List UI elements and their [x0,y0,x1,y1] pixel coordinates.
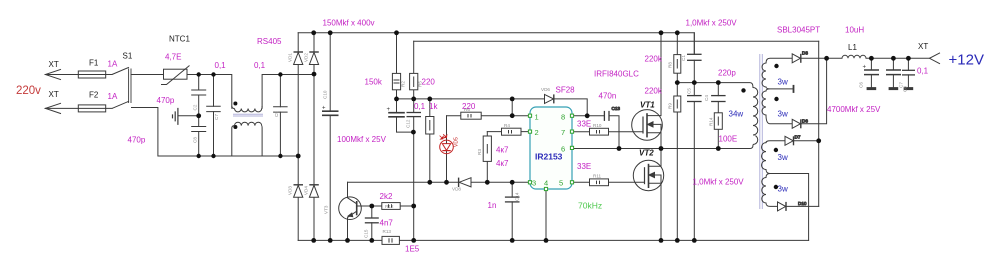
svg-text:R10: R10 [593,123,602,128]
wire VCC node line [397,98,545,100]
bridge diode VD1 [288,52,304,65]
wire VT3 emitter [347,218,349,241]
diode VD8 [452,178,471,192]
svg-text:VD8: VD8 [452,187,461,192]
transformer T1 primary winding [753,88,758,145]
capacitor C7out 4700Mkf [886,70,904,89]
svg-text:10uH: 10uH [845,26,864,35]
svg-text:VD5: VD5 [454,137,460,147]
wire divider midpoint to primary [677,83,753,88]
choke lower winding [235,122,262,125]
svg-text:VT3: VT3 [324,205,329,214]
svg-text:470p: 470p [157,96,175,105]
svg-text:220v: 220v [16,85,41,97]
svg-text:C14: C14 [515,192,520,201]
svg-text:D10: D10 [798,201,807,206]
wire top rail +310V [298,33,694,53]
svg-text:100E: 100E [719,135,738,144]
resistor R13 1E5 [382,229,399,244]
svg-text:C6: C6 [859,82,864,88]
svg-text:220k: 220k [645,55,663,64]
wire 0.1 VCC cap column [413,99,415,241]
wire C14 column [511,182,513,240]
choke winding end links [232,106,262,156]
ground symbol [173,108,178,125]
svg-text:8: 8 [561,112,565,121]
svg-text:C9: C9 [274,111,279,117]
wire W2 bottom lead to D6 [766,115,792,124]
svg-text:0,1: 0,1 [254,61,266,70]
bridge diode VD2 [303,52,319,65]
wire SF28 to pin8 [554,99,587,116]
wire VT3 collector [347,182,349,197]
svg-text:+: + [387,107,391,113]
svg-text:3w: 3w [778,110,788,119]
wire VT2 drain source column [660,149,662,241]
resistor R3 4k7 [477,136,491,161]
transistor VT3 [324,197,362,220]
wire D10 cathode to aux column [785,205,819,207]
wire 220 startup column [413,41,415,99]
transformer secondary W2 [762,91,766,115]
svg-text:R8: R8 [668,62,673,68]
svg-text:C12: C12 [406,119,411,128]
wire output +12V line [827,57,930,59]
svg-text:XT: XT [49,60,59,69]
svg-text:220p: 220p [718,69,736,78]
capacitor C5 1.0Mkf [687,88,702,102]
resistor R9 220k [668,96,681,112]
svg-text:C2: C2 [193,104,198,110]
resistor R5 220 [410,73,423,89]
svg-text:XT: XT [49,90,59,99]
resistor R8 220k [668,55,681,74]
wire bottom rail [298,239,808,241]
svg-text:4700Mkf x 25V: 4700Mkf x 25V [827,105,881,114]
diode SF28 VD6 [541,87,554,103]
svg-text:+: + [863,65,867,71]
capacitor C7 0.1 [206,106,221,120]
capacitor C11 0.1 [407,113,422,117]
svg-text:C7: C7 [214,114,219,120]
svg-text:1: 1 [535,112,539,121]
svg-text:VD6: VD6 [541,87,550,92]
svg-text:220: 220 [462,102,476,111]
svg-text:VD2: VD2 [303,53,308,62]
svg-text:D3: D3 [802,51,808,56]
svg-text:R3: R3 [477,149,482,155]
wire pin6 VS midpoint line [572,148,745,150]
svg-text:2: 2 [535,128,539,137]
transistor VT1 mosfet [632,110,663,141]
capacitor C9 0.1 [273,107,288,117]
input arrow XT top [45,69,61,79]
bridge diode VD3 [288,185,304,198]
svg-text:150Mkf x 400v: 150Mkf x 400v [323,19,375,28]
svg-text:VT2: VT2 [639,149,654,158]
svg-text:R13: R13 [383,229,392,234]
svg-text:C8: C8 [903,86,908,92]
svg-text:3w: 3w [778,78,788,87]
svg-text:4: 4 [544,179,548,188]
svg-text:4к7: 4к7 [496,146,509,155]
LED VD5 [440,134,460,153]
svg-text:C1: C1 [681,55,686,61]
wire 150k column [396,33,398,99]
svg-text:R9: R9 [668,103,673,109]
capacitor C12 100Mkf [387,107,411,128]
svg-text:0,1: 0,1 [215,61,227,70]
svg-text:C5: C5 [687,88,692,94]
svg-text:0,1: 0,1 [414,102,426,111]
svg-text:3w: 3w [778,185,788,194]
wire X-cap columns [199,75,281,157]
svg-text:D7: D7 [795,135,801,140]
fuse F2 [78,105,105,112]
svg-text:1A: 1A [108,92,118,101]
capacitor C10 150Mkf [322,90,339,115]
svg-text:3w: 3w [778,153,788,162]
wire snubber column [717,83,719,149]
svg-text:C4: C4 [704,95,709,101]
svg-text:470p: 470p [128,136,146,145]
wire center tap stub [766,87,793,91]
capacitor C2 470p [191,90,206,111]
wire W4 bottom lead to D10 [766,203,778,206]
capacitor C8out 0.1 [902,70,915,92]
diode D7 [785,135,801,146]
svg-text:IRFI840GLC: IRFI840GLC [594,70,639,79]
wire aux VCC feedback line [414,40,819,42]
wire D3 cathode to output node [801,57,827,59]
wire pin7 gate line [572,131,643,133]
transformer secondary W4 [762,178,766,204]
wire lower center tap to bottom rail [766,170,809,241]
inductor L1 [842,55,866,58]
wire 1k column [429,99,431,182]
capacitor C8 470p [191,127,206,144]
switch S1 link [129,69,131,104]
svg-text:F2: F2 [89,91,99,100]
transistor VT2 mosfet [633,160,663,190]
wire pin8 bootstrap line [572,116,619,149]
svg-text:4,7E: 4,7E [165,53,181,62]
fuse F1 [78,71,105,78]
capacitor C6 4700Mkf [859,65,880,89]
wire D6 cathode to output node [801,58,827,124]
svg-text:C10: C10 [323,90,328,99]
diode D10 [778,201,807,211]
wire D7 cathode to aux column [792,140,819,142]
capacitor C4 220p [704,95,726,102]
svg-text:R14: R14 [709,117,714,126]
svg-text:34w: 34w [729,110,744,119]
svg-text:RS405: RS405 [257,37,282,46]
wire pin3 CT line [348,181,529,183]
svg-text:3: 3 [532,179,536,188]
resistor R4 4k7 [502,123,522,135]
svg-text:4n7: 4n7 [380,219,394,228]
IC U1 IR2153 [528,107,573,191]
resistor R6 220 [461,107,481,119]
wire pin2 RT line [487,131,529,133]
svg-text:1A: 1A [108,60,118,69]
capacitor C15 4n7 [364,218,379,238]
svg-text:SBL3045PT: SBL3045PT [777,26,820,35]
svg-text:7: 7 [561,128,565,137]
wire 220k divider column [676,33,678,241]
svg-text:XT: XT [918,42,928,51]
wire bottom AC line [45,33,298,241]
wire C7 column [892,58,894,87]
svg-text:1,0Mkf x 250V: 1,0Mkf x 250V [693,178,745,187]
resistor R7 1k [426,117,434,135]
svg-text:R2: R2 [401,81,406,87]
svg-text:VD4: VD4 [303,186,308,195]
center tap bar terminal [793,85,795,93]
svg-text:220k: 220k [645,87,663,96]
capacitor C14 1n [505,192,520,202]
svg-text:S1: S1 [123,52,133,61]
diode D3 [792,51,808,63]
wire C12 column [397,99,414,132]
wire C1 C5 column [693,33,695,241]
switch S1 blades [112,67,129,108]
wire pin4 column [545,189,547,240]
svg-text:R11: R11 [593,174,602,179]
svg-text:C8: C8 [193,137,198,143]
wire LED column [446,116,448,183]
resistor R10 33E [590,123,609,135]
wire pin5 gate line [572,181,645,183]
svg-text:R12: R12 [385,204,394,209]
svg-text:C15: C15 [364,229,369,238]
svg-text:F1: F1 [89,59,99,68]
transformer T1 core [760,54,763,209]
svg-text:1k: 1k [429,102,438,111]
wire aux VCC column [818,41,820,206]
wire primary bottom lead [745,145,754,149]
wire pin1 line with R6 [447,115,529,117]
svg-text:R4: R4 [504,123,510,128]
wire W3 top lead to D7 [766,141,785,143]
svg-text:C13: C13 [612,106,621,111]
svg-text:33E: 33E [577,120,591,129]
resistor R14 100E [709,113,723,130]
svg-text:+12V: +12V [949,52,984,69]
wire VT1 drain column [660,33,662,149]
svg-text:SF28: SF28 [556,86,576,95]
svg-text:5: 5 [559,179,563,188]
transformer secondary W3 [762,143,767,170]
svg-text:VD1: VD1 [288,53,293,62]
svg-text:2k2: 2k2 [380,192,393,201]
bridge diode VD4 [303,185,319,198]
resistor R12 2k2 [382,203,400,210]
resistor R11 33E [590,174,609,186]
thermistor NTC1 [161,66,190,85]
svg-text:NTC1: NTC1 [169,35,190,44]
svg-text:100Mkf x 25V: 100Mkf x 25V [337,135,387,144]
output connector XT fork [930,53,941,64]
wire C10 column [329,33,331,241]
choke L upper winding [235,109,262,112]
svg-text:L1: L1 [848,43,857,52]
wire ground stub [179,115,199,117]
svg-text:VD3: VD3 [288,186,293,195]
wire top AC line [45,33,314,241]
svg-text:70kHz: 70kHz [578,201,602,211]
diode D6 [792,119,808,129]
wire R3 column [486,132,488,183]
wire secondary W1 top lead to D3 [766,58,792,63]
input arrow XT bottom [45,103,61,113]
svg-text:1n: 1n [488,201,497,210]
svg-text:1,0Mkf x 250V: 1,0Mkf x 250V [686,19,738,28]
wire C15 column [371,206,373,240]
svg-text:0,1: 0,1 [917,67,929,76]
wire VCC to pin1 jog [511,99,513,116]
svg-text:150k: 150k [365,78,383,87]
svg-text:1E5: 1E5 [405,245,420,254]
wire C6 column [870,58,872,87]
svg-text:+: + [322,106,326,112]
capacitor C13 470n [604,106,620,121]
resistor R2 150k [392,73,405,89]
svg-text:4к7: 4к7 [496,159,509,168]
wire 2k2 leads [372,205,414,207]
svg-text:470n: 470n [599,92,617,101]
svg-text:D6: D6 [802,119,808,124]
svg-text:IR2153: IR2153 [535,152,563,162]
choke core [233,114,263,116]
wire VT3 base lead [361,205,372,207]
capacitor C1 1.0Mkf [681,54,702,61]
svg-text:220: 220 [422,78,436,87]
wire C8 output column [907,58,909,87]
svg-text:33E: 33E [577,162,591,171]
svg-text:VT1: VT1 [640,101,655,110]
transformer secondary W1 [762,63,766,87]
